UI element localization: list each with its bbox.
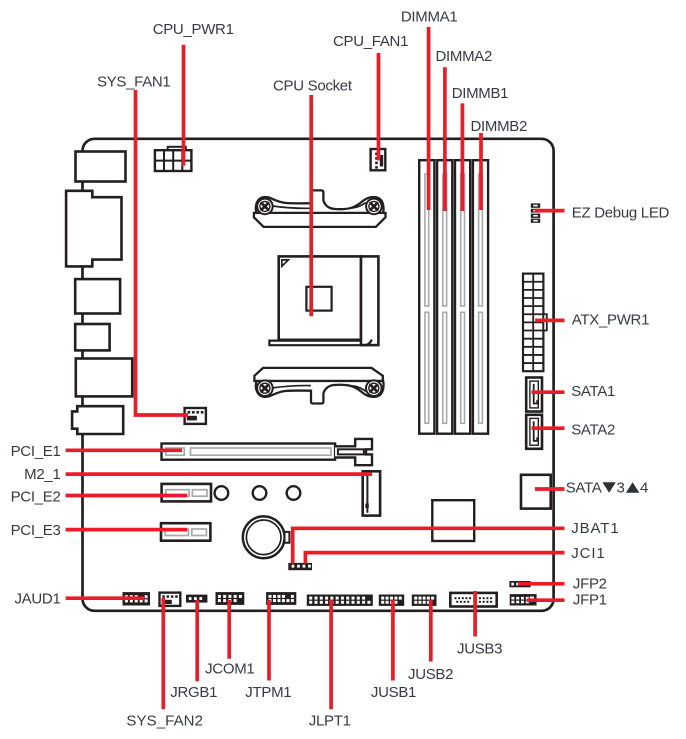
svg-text:SATA1: SATA1 bbox=[571, 383, 615, 400]
svg-text:PCI_E2: PCI_E2 bbox=[11, 488, 61, 505]
svg-text:EZ Debug LED: EZ Debug LED bbox=[572, 205, 670, 222]
svg-text:CPU Socket: CPU Socket bbox=[273, 78, 353, 95]
svg-text:JUSB2: JUSB2 bbox=[408, 666, 453, 683]
svg-text:PCI_E3: PCI_E3 bbox=[11, 522, 61, 539]
svg-text:DIMMB1: DIMMB1 bbox=[452, 85, 509, 102]
svg-text:JUSB1: JUSB1 bbox=[371, 684, 416, 701]
svg-text:JCOM1: JCOM1 bbox=[205, 660, 254, 677]
svg-text:3: 3 bbox=[617, 480, 625, 497]
svg-text:ATX_PWR1: ATX_PWR1 bbox=[572, 311, 649, 328]
svg-text:JLPT1: JLPT1 bbox=[309, 712, 351, 729]
svg-text:M2_1: M2_1 bbox=[24, 466, 60, 483]
svg-text:JCI1: JCI1 bbox=[571, 545, 605, 562]
svg-text:JFP2: JFP2 bbox=[573, 575, 607, 592]
svg-text:DIMMB2: DIMMB2 bbox=[471, 118, 528, 135]
svg-text:SYS_FAN2: SYS_FAN2 bbox=[126, 712, 203, 729]
svg-text:JUSB3: JUSB3 bbox=[457, 641, 502, 658]
svg-text:JRGB1: JRGB1 bbox=[170, 684, 217, 701]
svg-text:JFP1: JFP1 bbox=[573, 592, 607, 609]
svg-text:4: 4 bbox=[640, 480, 648, 497]
svg-text:SATA: SATA bbox=[566, 480, 602, 497]
svg-text:JBAT1: JBAT1 bbox=[571, 520, 619, 537]
svg-text:DIMMA2: DIMMA2 bbox=[436, 48, 493, 65]
svg-text:SYS_FAN1: SYS_FAN1 bbox=[97, 74, 170, 91]
svg-text:CPU_PWR1: CPU_PWR1 bbox=[153, 21, 234, 38]
svg-text:CPU_FAN1: CPU_FAN1 bbox=[333, 33, 408, 50]
svg-text:JAUD1: JAUD1 bbox=[14, 590, 60, 607]
svg-text:PCI_E1: PCI_E1 bbox=[11, 443, 61, 460]
svg-text:SATA2: SATA2 bbox=[571, 422, 615, 439]
svg-text:DIMMA1: DIMMA1 bbox=[401, 9, 458, 26]
svg-text:JTPM1: JTPM1 bbox=[245, 684, 291, 701]
